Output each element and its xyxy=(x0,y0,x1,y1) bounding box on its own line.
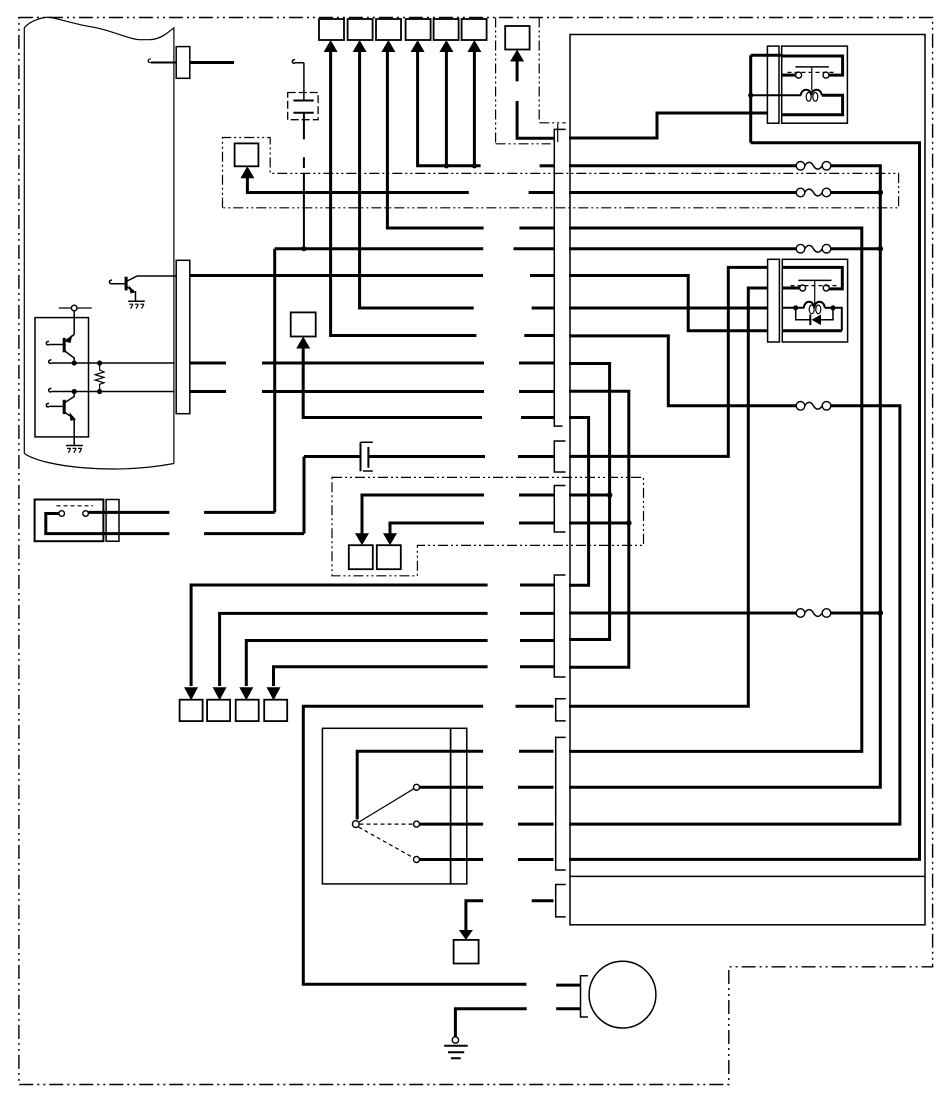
module U1 torn bottom edge xyxy=(24,454,174,469)
relay K2 connector bracket xyxy=(768,259,780,342)
resistor R1 xyxy=(95,363,104,392)
relay K2 case xyxy=(782,259,847,342)
SW1 pin F1 stub xyxy=(519,750,554,753)
relay K2 coil return path xyxy=(782,329,842,332)
wire C2net stub xyxy=(519,522,554,525)
relay K1 case xyxy=(782,46,848,123)
inner box U2 xyxy=(35,318,89,437)
transistor Q3 base lead with hook xyxy=(46,403,64,407)
arrow square A4 xyxy=(264,700,287,721)
wire net11 pinA11 loop to pin D1 xyxy=(569,418,589,586)
arrow square A2 xyxy=(207,700,230,721)
relay K2 coil right lead xyxy=(825,307,833,309)
junction dot column6 xyxy=(472,163,477,168)
SW1 contact2 wire xyxy=(420,823,484,826)
SW1 contact1 wire xyxy=(420,786,484,789)
ignition switch SW1 feed wire (thick C path) xyxy=(303,706,526,984)
wire D2 stub xyxy=(520,612,554,615)
wire netD2 with fuse FU5 xyxy=(569,612,880,615)
capacitor C1 hook lead xyxy=(292,60,304,101)
splice square S9 xyxy=(291,312,316,336)
wire stub from J1 (cut) xyxy=(190,61,234,64)
arrow into SC1 xyxy=(355,533,369,545)
SW2 mechanical link dashed xyxy=(57,505,94,507)
wire net1 pinA1 to relay K1 xyxy=(569,113,767,138)
arrow into S9 xyxy=(296,337,310,349)
ground symbol G1 xyxy=(128,300,145,302)
wire column 1 to pin A8 xyxy=(331,51,477,336)
transistor Q1 base lead with hook xyxy=(109,280,126,284)
SW1 position contact 3 xyxy=(414,857,420,863)
wire W10 harness segment xyxy=(190,390,484,393)
arrow into S3 xyxy=(381,40,395,52)
relay K2 contact a xyxy=(800,285,806,291)
wire W5 stub to pin A5 xyxy=(514,247,554,250)
wire D2 to arrow square A2 xyxy=(220,613,488,686)
splice square S2 xyxy=(348,19,373,40)
splice square S1 xyxy=(319,19,344,40)
transistor Q2 base bar xyxy=(63,338,66,352)
central connector segment D xyxy=(554,575,565,677)
arrow square A3 xyxy=(236,700,259,721)
harness divider line xyxy=(570,875,925,877)
SW2 internal wire to contact a xyxy=(46,514,170,534)
splice square S7 xyxy=(505,26,529,50)
relay K1 switch bar xyxy=(795,66,829,68)
relay K1 contact top path xyxy=(782,56,843,75)
wire D1 stub xyxy=(520,584,554,587)
central connector segment A xyxy=(554,129,565,426)
connector bracket J3 on SW2 xyxy=(106,500,119,542)
capacitor C1 dashed case xyxy=(288,93,318,120)
motor supply stub 1 xyxy=(556,984,580,987)
relay K2 left contact stub xyxy=(782,287,799,290)
junction dot K2 diode left xyxy=(793,305,798,310)
wire D1 to arrow square A1 xyxy=(191,585,488,686)
wire net7 pinA7 to relay K2 coil xyxy=(569,307,768,310)
SW1 position contact 2 xyxy=(414,821,420,827)
ground G2 bars xyxy=(444,1046,468,1058)
wire C1net from pin C1 to SC1 xyxy=(362,495,484,534)
fuse FU3 xyxy=(796,244,805,253)
relay K2 switch dashed link xyxy=(791,285,840,287)
wire hook inside U1 at pin J1 xyxy=(148,59,151,63)
transistor Q2 collector xyxy=(64,351,74,364)
arrow square A1 xyxy=(180,700,203,721)
arrow into S6 xyxy=(467,40,481,52)
junction dot xyxy=(97,389,102,394)
wire column 2 to pin A7 xyxy=(360,51,474,308)
contact circle xyxy=(71,305,77,311)
transistor Q1 emitter with arrow xyxy=(126,287,134,292)
wire net9 pinA9 loop to pin D3 xyxy=(569,364,610,640)
wire W4 stub to pin A4 xyxy=(519,227,553,230)
relay K2 coil xyxy=(782,302,824,308)
transistor Q2 emitter (arrow into bar) xyxy=(66,335,74,341)
relay K1 armature xyxy=(811,67,813,91)
SW2 pin1 harness run to V1 xyxy=(204,511,275,514)
switch SW1 body xyxy=(322,728,450,884)
capacitor C1 plates xyxy=(293,101,313,113)
SW1 common contact xyxy=(352,821,359,828)
SW1 contact3 wire xyxy=(420,858,484,861)
transistor Q3 base bar xyxy=(63,400,66,414)
arrow into S1 xyxy=(324,40,338,52)
wire net5 pinA5 with fuse FU3 xyxy=(569,247,880,250)
wire D4 stub xyxy=(520,665,554,668)
wire W12 left run xyxy=(304,455,361,458)
pin F3 stub xyxy=(518,823,554,826)
connector A index cross xyxy=(557,124,559,142)
wire W12 stub to pin B1 xyxy=(518,455,554,458)
SW2 contact a xyxy=(59,511,65,517)
dash-dot box around splice squares SC1 SC2 xyxy=(332,477,644,575)
splice square S8 xyxy=(235,143,259,166)
junction dot C1 tap on W5 xyxy=(301,246,306,251)
wire D3 stub xyxy=(520,639,554,642)
wire W5 from corner via C1 tap xyxy=(275,247,484,250)
motor ground wire xyxy=(455,1009,526,1037)
relay K2 contact b xyxy=(823,285,829,291)
control module U1 torn outline xyxy=(24,17,174,463)
wire column 4 down xyxy=(418,51,481,166)
wire column 6 down xyxy=(473,51,476,166)
capacitor C1 lower lead with break xyxy=(303,113,305,249)
arrow into S2 xyxy=(353,40,367,52)
splice square SC1 xyxy=(349,545,373,569)
ground G2 terminal circle xyxy=(452,1037,458,1043)
wire net2 pinA2 with fuse FU1 xyxy=(569,166,880,788)
fuse FU1 xyxy=(796,162,805,171)
junction dot K2 diode right xyxy=(830,305,835,310)
SW2 contact b xyxy=(83,511,89,517)
wire W6 from Q1 collector xyxy=(190,274,483,277)
vertical riser V2 xyxy=(303,457,306,534)
wire W6 stub to pin A6 xyxy=(530,274,554,277)
wire W9 stub to pin A9 xyxy=(519,362,554,365)
relay K1 coil feed xyxy=(751,94,801,96)
relay K1 connector bracket xyxy=(767,46,779,123)
arrow square A5 xyxy=(454,940,479,964)
inline connector symbol on W12 xyxy=(361,442,369,471)
wire W2 stub to pin A2 xyxy=(540,164,554,167)
wire W7 stub to pin A7 xyxy=(532,307,554,310)
wire G1 stub xyxy=(532,899,554,902)
wire W10 stub to pin A10 xyxy=(519,390,554,393)
wire U2 output lower (base net) xyxy=(49,388,175,392)
relay K1 switch dashed link xyxy=(788,71,837,73)
SW2 pin1 wire from contact b xyxy=(88,511,169,514)
wire column 3 to pin A4 xyxy=(387,51,483,228)
wire D4 to arrow square A4 xyxy=(274,667,488,686)
central connector segment C xyxy=(554,486,565,533)
junction dot netC2 xyxy=(626,520,632,526)
junction dot net5 xyxy=(878,246,884,252)
diode D1 xyxy=(812,315,822,326)
transistor Q3 emitter down lead xyxy=(73,419,75,446)
transistor Q3 collector xyxy=(64,392,74,404)
motor return stub 2 xyxy=(556,1007,580,1010)
relay K1 left contact stub xyxy=(782,74,796,77)
junction dot K1 coil xyxy=(748,93,753,98)
central connector segment F xyxy=(556,737,566,870)
pin F2 stub xyxy=(518,786,554,789)
transistor Q2 base lead with hook xyxy=(46,341,64,345)
SW1 common feed wire xyxy=(357,751,483,819)
wire netC1 tee xyxy=(569,494,610,497)
junction dot netC1 xyxy=(607,492,613,498)
fuse FU5 xyxy=(796,609,805,618)
junction dot xyxy=(97,360,102,365)
relay K1 contact b xyxy=(823,72,829,78)
splice square S4 xyxy=(406,19,431,40)
wire netC2 tee xyxy=(569,522,629,525)
connector bracket J2 on U1 xyxy=(176,260,190,413)
wire U2 output upper (base net) xyxy=(49,360,175,364)
wire net10 pinA10 loop to pin D4 xyxy=(569,391,629,667)
wire J1 pin to bracket xyxy=(151,62,176,64)
wire W8 stub to pin A8 xyxy=(524,334,553,337)
connector bracket J1 on U1 xyxy=(176,47,190,79)
connector bracket J4 on SW1 xyxy=(451,728,467,884)
central connector segment G xyxy=(556,885,566,917)
wire net8 pinA8 with fuse FU4 to pin F3 xyxy=(569,336,900,824)
wire W11 stub to pin A11 xyxy=(521,416,554,419)
wire D3 to arrow square A3 xyxy=(246,641,487,687)
dash-dot box around S8 with long extension xyxy=(223,138,899,208)
transistor Q1 base bar xyxy=(125,277,128,291)
relay K1 coil return path xyxy=(782,95,843,115)
arrow into SC2 xyxy=(383,533,397,545)
arrow into S4 xyxy=(411,40,425,52)
relay K2 switch bar xyxy=(798,279,831,281)
splice square S6 xyxy=(462,19,487,40)
wire netE pinE1 to relay K2 contact xyxy=(569,288,768,706)
SW1 position contact 1 xyxy=(414,784,420,790)
dash-dot box around S7 xyxy=(496,18,566,144)
contact down lead xyxy=(73,311,75,335)
splice square S3 xyxy=(376,19,401,40)
wire E stub to pin E1 xyxy=(516,705,554,708)
junction dot xyxy=(72,360,77,365)
motor connector bracket J5 xyxy=(581,976,589,1017)
battery run from K1 down right side to pin F4 xyxy=(569,143,920,860)
central connector segment B xyxy=(554,441,565,472)
relay K1 supply drop xyxy=(751,55,782,143)
relay K1 contact a xyxy=(796,72,802,78)
wire W9 harness segment xyxy=(190,362,484,365)
wire net12 pinB1 to relay K2 common xyxy=(569,267,768,456)
wire W3 stub to pin A3 xyxy=(529,191,554,194)
wire G1net from pin G1 xyxy=(466,901,483,931)
vertical riser V1 xyxy=(273,249,276,513)
wire from S7 arrow down (dashed gap) xyxy=(517,61,553,139)
ground symbol G0 xyxy=(66,445,83,447)
SW1 selector dashed position 2 xyxy=(360,823,414,825)
relay K1 coil xyxy=(801,90,822,96)
fuse FU4 xyxy=(796,402,805,411)
motor M1 xyxy=(589,961,656,1028)
junction dot column5 xyxy=(444,163,449,168)
arrow into S8 xyxy=(240,166,254,178)
junction dot net3 xyxy=(878,190,884,196)
wire C1net stub xyxy=(519,494,554,497)
transistor Q1 emitter down lead xyxy=(135,291,137,301)
wire from S8 arrow to pin A3 xyxy=(247,177,468,192)
splice square SC2 xyxy=(377,545,401,569)
central connector segment E xyxy=(556,699,566,721)
transistor Q3 emitter with arrow xyxy=(64,412,74,419)
wire net4 pinA4 loop to pin F1 xyxy=(569,228,862,751)
SW1 selector solid position xyxy=(359,789,414,822)
contact lever line above U2 box xyxy=(59,307,92,309)
wire W11 from S9 arrow xyxy=(303,348,482,418)
switch module SW2 case xyxy=(35,500,104,542)
arrow into S5 xyxy=(439,40,453,52)
wire net6 pinA6 to relay K2 coil return xyxy=(569,276,768,331)
main harness rectangle xyxy=(570,35,925,925)
relay K2 contact top path xyxy=(782,267,842,289)
diode D1 branch xyxy=(796,308,833,320)
wire net3 pinA3 with fuse FU2 xyxy=(569,191,880,194)
wire column 5 down xyxy=(445,51,448,166)
wire C2net from pin C2 to SC2 xyxy=(390,523,484,534)
relay K2 armature xyxy=(814,280,816,304)
wire W12 right of connector xyxy=(368,455,485,458)
SW2 pin2 harness run to V2 xyxy=(204,532,304,535)
junction dot xyxy=(72,389,77,394)
pin F4 stub xyxy=(518,858,554,861)
junction dot netD2 xyxy=(878,610,884,616)
transistor Q1 collector xyxy=(126,276,176,282)
arrow into S7 xyxy=(510,50,524,62)
SW1 selector dashed position 3 xyxy=(359,827,414,858)
fuse FU2 xyxy=(796,188,805,197)
splice square S5 xyxy=(434,19,459,40)
